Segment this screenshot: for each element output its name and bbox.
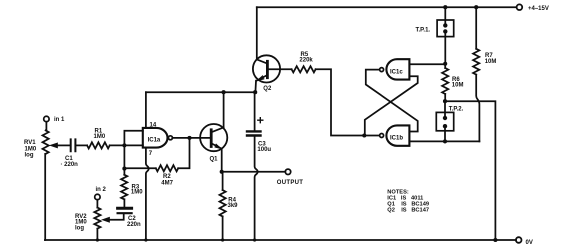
svg-text:in 2: in 2 [96,187,107,193]
resistor R1 1M0 [87,142,110,148]
node junction R2 R3 input bus [122,167,126,171]
node junction R6 bottom / T.P.2 top [443,99,447,103]
svg-text:IC1 IS 4011: IC1 IS 4011 [387,196,423,202]
wire R7 down with crossover jog to IC1b input line [476,75,479,142]
transistor Q2 BC147 [253,55,280,82]
svg-text:Q1: Q1 [210,156,219,162]
node junction R4 on 0V rail [221,238,224,241]
capacitor C2 220n [118,207,132,210]
resistor R3 1M0 [121,175,127,200]
svg-text:OUTPUT: OUTPUT [277,180,303,186]
wire IC1b output cross-coupled to IC1c input [364,76,417,135]
wire R4 to 0V rail [222,216,224,240]
node junction R7 on +V rail [474,5,478,9]
wire R2 to input bus junction [124,167,155,169]
wire bottom 0V rail [45,239,516,241]
resistor R5 220k [292,66,316,72]
svg-text:220n: 220n [127,222,141,228]
op-amp gate IC1a (4011 NAND oscillator) [143,128,168,148]
node junction pin 7 on 0V rail [144,238,147,241]
svg-text:1M0: 1M0 [131,190,143,196]
wire R1 to IC1a paralleled inputs (input bus) [110,131,143,169]
svg-text:RV1: RV1 [24,140,36,146]
transistor Q1 BC149 [200,124,227,151]
wire IC1c top input to T.P.1 / R6 node [409,63,445,65]
potentiometer RV2 1M0 log [94,208,100,229]
svg-text:NOTES:: NOTES: [387,189,409,195]
node in 1 input terminal [44,116,49,121]
op-amp gate IC1c (4011 NAND bistable) [386,59,409,79]
node +4-15V supply terminal [517,4,523,10]
svg-text:R2: R2 [163,174,171,180]
svg-text:10M: 10M [485,59,497,65]
node in 2 input terminal [95,194,100,199]
node 0V supply terminal [516,237,522,243]
svg-text:220k: 220k [299,58,313,64]
wire IC1c output cross-coupled to IC1b input [366,70,418,132]
svg-text:100u: 100u [257,147,271,153]
potentiometer RV1 1M0 log [43,130,49,154]
wire Q2 collector to +V rail [256,7,258,59]
svg-text:3k9: 3k9 [228,203,239,209]
svg-text:4M7: 4M7 [161,180,173,186]
node junction C3 on 0V rail [253,238,256,241]
svg-text:· 220n: · 220n [61,162,79,168]
node OUTPUT terminal [285,169,290,174]
wire in1 terminal to RV1 track and RV1 to 0V rail [45,122,46,240]
resistor R7 10M [475,7,477,49]
svg-text:Q2 IS BC147: Q2 IS BC147 [387,208,429,214]
wire C2 to R3 [123,199,125,207]
resistor R6 10M [442,68,448,94]
wire IC1b bottom input line [409,140,479,142]
wire Q2 emitter to supply node [254,81,257,93]
node junction Q1 emitter / output line [220,170,224,174]
wire R6/T.P.2 node to ground drop [445,101,495,240]
svg-text:14: 14 [150,122,157,128]
wire pin 7 to 0V rail with crossover jog [146,148,149,240]
node junction Q1 collector [222,90,226,94]
svg-text:0V: 0V [526,240,533,244]
wire pin 14 supply riser [145,92,147,128]
svg-text:Q2: Q2 [263,86,272,92]
svg-text:log: log [25,153,34,159]
node junction ground drop on 0V rail [493,238,497,242]
capacitor C1 220n [71,139,76,151]
node junction T.P.1 on +V rail [443,5,447,9]
svg-text:1M0: 1M0 [94,134,106,140]
wire C3 to supply node [254,92,256,131]
wire Q1 collector to supply rail [223,92,225,127]
svg-text:IC1a: IC1a [148,138,161,144]
wire Q1 emitter down [221,149,223,172]
wire output line [222,171,286,173]
touch pad T.P.2 [436,112,453,130]
wire feedback riser to R2 [178,138,189,168]
svg-text:IC1c: IC1c [390,69,403,75]
wire IC1a output to Q1 base [172,137,211,139]
node junction IC1b output / R5 [362,133,366,137]
touch pad T.P.1 [437,20,454,37]
node junction RV2 on 0V rail [96,238,99,241]
svg-text:IC1b: IC1b [390,135,403,141]
node junction Q2 emitter / C3 / supply rail [253,90,257,94]
capacitor C3 100u electrolytic [247,131,261,135]
svg-text:T.P.1.: T.P.1. [416,28,431,34]
svg-text:+4–15V: +4–15V [528,6,549,12]
wire C3 to 0V rail with crossover jog at output line [255,136,258,241]
resistor R4 3k9 [222,172,224,190]
wire input bus to R3 [123,169,125,175]
resistor R2 4M7 [156,165,178,171]
svg-text:10M: 10M [452,83,464,89]
svg-text:log: log [75,225,84,231]
svg-text:T.P.2.: T.P.2. [449,107,464,113]
wire R5 to IC1b output node [316,69,365,135]
node junction IC1a output / R2 [187,136,191,140]
wire mid supply rail from pin 14 to Q2 emitter node [146,91,255,93]
C3 polarity plus sign [258,118,263,123]
node junction T.P.1 / R6 / IC1c input [443,62,447,66]
svg-text:in 1: in 1 [54,117,65,123]
wire top +V rail [257,6,517,8]
node junction T.P.2 bottom / IC1b input [443,139,447,143]
wire Q2 base to R5 [269,68,292,70]
wire C1 to R1 [75,144,87,146]
node junction R1 / input bus [122,143,126,147]
wire in2 terminal to RV2 track and RV2 to 0V rail [96,200,98,240]
op-amp gate IC1b (4011 NAND bistable) [386,125,409,145]
